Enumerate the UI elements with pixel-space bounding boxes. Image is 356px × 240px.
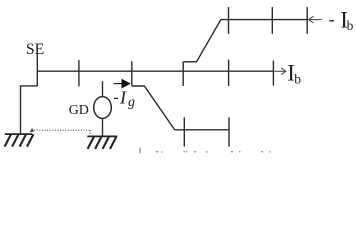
svg-text:SE: SE [26,41,44,58]
svg-text:-: - [329,9,335,29]
svg-text:b: b [347,18,354,33]
svg-text:I: I [119,88,127,108]
svg-text:g: g [128,95,135,110]
svg-text:GD: GD [69,103,89,118]
svg-text:b: b [294,72,301,87]
svg-text:-: - [113,89,118,106]
